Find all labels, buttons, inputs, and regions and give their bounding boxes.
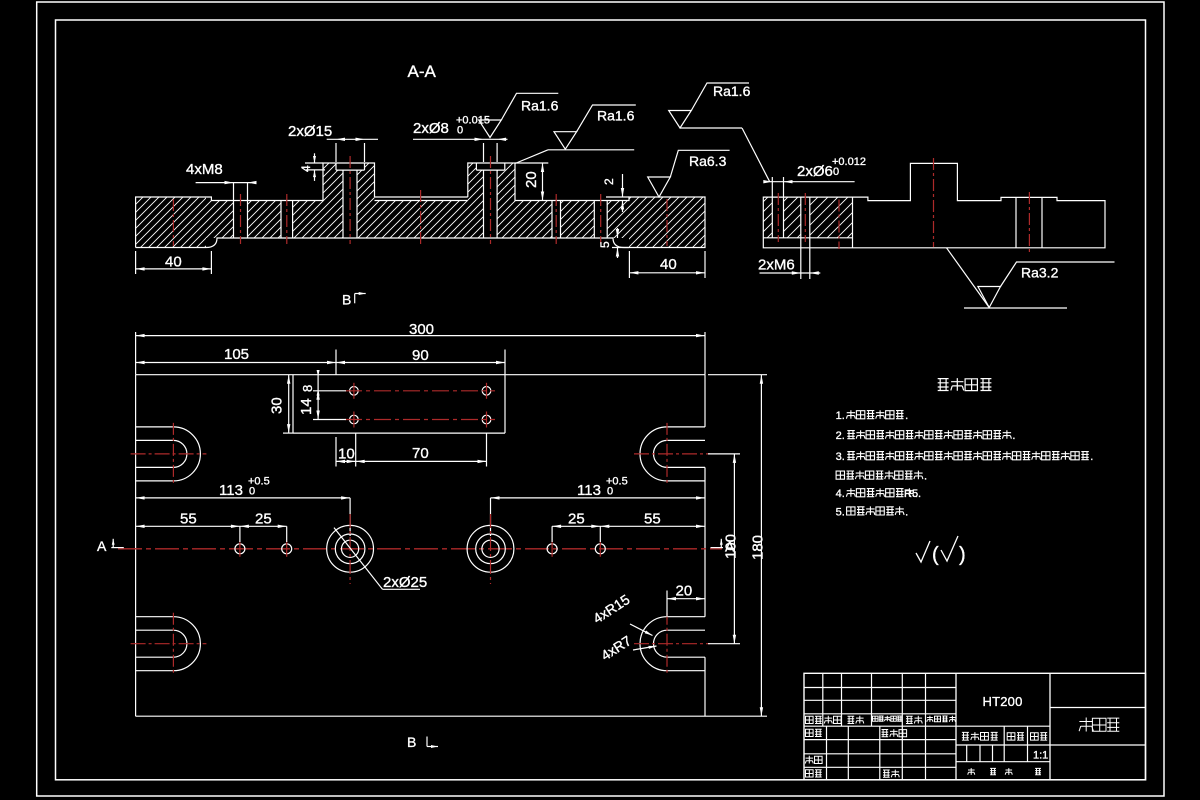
svg-text:0: 0: [249, 486, 255, 498]
svg-text:Ra1.6: Ra1.6: [521, 98, 559, 114]
svg-text:25: 25: [255, 511, 272, 528]
svg-text:2xØ25: 2xØ25: [383, 574, 427, 591]
svg-text:180: 180: [750, 535, 767, 560]
svg-text:105: 105: [224, 346, 249, 363]
svg-text:Ra3.2: Ra3.2: [1021, 265, 1059, 281]
svg-text:4.: 4.: [836, 488, 845, 500]
svg-text:.: .: [905, 410, 908, 422]
svg-text:113: 113: [577, 482, 601, 499]
svg-text:25: 25: [568, 511, 585, 528]
svg-text:20: 20: [523, 171, 540, 188]
svg-text:.: .: [924, 471, 927, 483]
svg-text:20: 20: [676, 583, 693, 600]
svg-text:4: 4: [299, 165, 313, 172]
svg-text:Ra1.6: Ra1.6: [597, 108, 635, 124]
svg-text:40: 40: [165, 254, 182, 271]
svg-text:10: 10: [338, 446, 355, 463]
svg-text:90: 90: [412, 347, 429, 364]
svg-text:0: 0: [833, 166, 839, 178]
svg-text:.: .: [1090, 451, 1093, 463]
svg-text:R5.: R5.: [904, 488, 921, 500]
svg-text:2xØ8: 2xØ8: [413, 120, 449, 137]
svg-text:55: 55: [644, 511, 661, 528]
svg-text:5.: 5.: [836, 506, 845, 518]
svg-text:A: A: [725, 539, 735, 555]
svg-text:8: 8: [300, 385, 315, 392]
svg-text:Ra6.3: Ra6.3: [689, 153, 727, 169]
svg-text:70: 70: [412, 445, 429, 462]
svg-text:5: 5: [598, 241, 612, 248]
svg-text:2.: 2.: [836, 430, 845, 442]
svg-text:.: .: [1012, 430, 1015, 442]
svg-text:55: 55: [180, 511, 197, 528]
svg-text:2xM6: 2xM6: [758, 257, 795, 274]
svg-text:2xØ15: 2xØ15: [288, 123, 332, 140]
svg-text:300: 300: [409, 321, 434, 338]
svg-text:14: 14: [298, 398, 315, 415]
svg-text:(: (: [932, 544, 939, 566]
svg-text:HT200: HT200: [982, 694, 1022, 709]
svg-text:0: 0: [457, 125, 463, 137]
svg-text:113: 113: [219, 482, 243, 499]
svg-text:2xØ6: 2xØ6: [797, 163, 833, 180]
svg-text:0: 0: [607, 486, 613, 498]
svg-text:.: .: [905, 506, 908, 518]
svg-text:1.: 1.: [836, 410, 845, 422]
svg-text:1:1: 1:1: [1033, 750, 1048, 762]
svg-text:B: B: [407, 734, 416, 750]
svg-text:Ra1.6: Ra1.6: [713, 83, 751, 99]
svg-text:): ): [959, 544, 966, 566]
svg-text:A: A: [97, 538, 107, 554]
svg-text:B: B: [342, 292, 351, 308]
svg-text:30: 30: [269, 397, 286, 414]
svg-text:4xM8: 4xM8: [186, 161, 223, 178]
svg-text:40: 40: [660, 256, 677, 273]
svg-text:A-A: A-A: [408, 62, 437, 81]
svg-text:3.: 3.: [836, 451, 845, 463]
svg-text:2: 2: [602, 178, 616, 185]
